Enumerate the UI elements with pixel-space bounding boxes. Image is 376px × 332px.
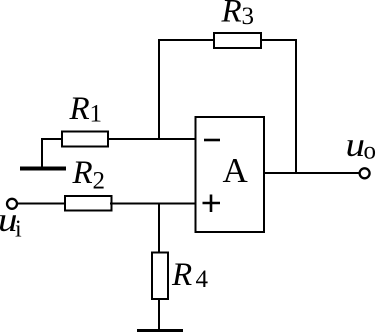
- wire: down to ground: [41, 138, 43, 167]
- svg-text:4: 4: [196, 266, 209, 293]
- resistor R3: [214, 33, 261, 48]
- svg-text:1: 1: [90, 101, 103, 128]
- wire: non-inverting node down to R4: [158, 204, 160, 255]
- resistor R2: [65, 196, 112, 211]
- op-amp A: [196, 117, 265, 232]
- non-inverting input marker +: [203, 202, 221, 205]
- svg-text:R: R: [221, 0, 242, 30]
- wire: R1 left lead: [41, 138, 63, 140]
- svg-text:3: 3: [242, 3, 255, 30]
- svg-text:R: R: [69, 91, 90, 127]
- resistor R4: [152, 253, 168, 300]
- terminal: input u_i: [7, 199, 17, 209]
- inverting input marker -: [204, 139, 220, 142]
- svg-text:i: i: [15, 217, 22, 243]
- wire: op-amp output to terminal: [263, 172, 360, 174]
- wire: R3 right terminal to top-right corner: [260, 39, 297, 41]
- wire: top horizontal to R3 left terminal: [158, 39, 215, 41]
- svg-text:o: o: [364, 138, 376, 165]
- svg-text:R: R: [171, 257, 192, 293]
- svg-text:R: R: [72, 155, 93, 191]
- wire: R4 bottom to ground: [158, 298, 160, 330]
- wire: vertical from inverting node up to feedback loop: [158, 40, 160, 140]
- wire: R2 right lead to non-inverting input: [110, 203, 196, 205]
- wire: input terminal to R2: [18, 203, 66, 205]
- terminal: output u_o: [360, 168, 370, 178]
- resistor R1: [62, 132, 108, 147]
- wire: R1 right lead to inverting input: [107, 138, 196, 140]
- svg-text:2: 2: [93, 168, 106, 195]
- wire: right vertical down from feedback to output node: [295, 39, 297, 174]
- svg-text:u: u: [346, 127, 366, 164]
- svg-text:A: A: [223, 151, 249, 190]
- ground (bottom): [137, 329, 183, 332]
- ground (left): [20, 167, 66, 171]
